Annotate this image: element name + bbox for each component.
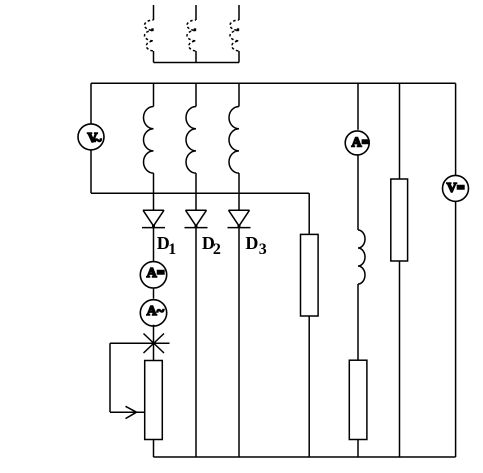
wire: rheostat to bottom bus — [153, 440, 155, 458]
wire: phase 3 drop from bus — [238, 83, 240, 106]
wire: diode D1 to ammeter — [153, 228, 155, 262]
wire: R3 to bottom bus — [357, 440, 359, 458]
transformer secondary winding L1 — [144, 107, 154, 174]
svg-text:A~: A~ — [147, 304, 165, 319]
wire: ammeter A~ down through tap cross to rheostat — [153, 325, 155, 361]
wire: R2 to bottom bus — [308, 316, 310, 457]
rheostat tap cross X — [144, 334, 165, 354]
resistor R4 body — [391, 179, 408, 261]
wire: right rail upper (to voltmeter V=) — [455, 83, 457, 175]
resistor R2 body — [301, 234, 319, 316]
svg-text:~: ~ — [94, 133, 102, 148]
wire: resistor branch drop from bus — [399, 83, 401, 179]
wire: inductor to resistor — [357, 284, 359, 360]
wire: phase 3 to bottom bus — [238, 228, 240, 457]
transformer secondary winding L3 — [229, 107, 239, 174]
svg-text:1: 1 — [168, 241, 176, 258]
wire: phase 3 to diode — [238, 173, 240, 210]
wire: top bus — [91, 82, 456, 84]
diode D1 — [142, 210, 165, 227]
transformer primary winding W2 (phase 2, top) — [187, 5, 196, 63]
wire: ammeter to inductor — [357, 155, 359, 230]
svg-text:D: D — [245, 233, 258, 253]
wire: tap horizontal y=343 — [110, 342, 170, 344]
wire: right rail lower — [455, 201, 457, 457]
wire: horizontal link y=193 — [91, 192, 309, 194]
voltmeter PV2 "V=" — [443, 175, 469, 201]
wire: left rail lower (V~ to bottom link) — [90, 150, 92, 193]
rheostat R1 body — [145, 361, 163, 440]
ammeter PA3 "A=" — [345, 131, 369, 155]
wire: left rail upper (to voltmeter V~) — [90, 83, 92, 124]
label D3 — [245, 233, 266, 258]
diode D2 — [185, 210, 208, 227]
svg-text:2: 2 — [213, 241, 221, 258]
wire: bottom bus — [154, 456, 456, 458]
resistor R3 body — [349, 360, 367, 439]
wire: primary neutral connector — [154, 62, 240, 64]
wire: R4 to bottom bus — [399, 261, 401, 457]
voltmeter PV1 "V~" — [78, 124, 104, 150]
wire: phase 1 to diode — [153, 173, 155, 210]
transformer secondary winding L2 — [186, 107, 196, 174]
ammeter PA2 "A~" — [140, 300, 166, 326]
svg-text:V=: V= — [447, 181, 465, 196]
ammeter PA1 "A=" — [140, 262, 166, 288]
label D2 — [202, 233, 221, 258]
wire: phase 2 to diode — [195, 173, 197, 210]
diode D3 — [228, 210, 251, 227]
svg-text:3: 3 — [259, 241, 267, 258]
wire: phase 1 drop from bus — [153, 83, 155, 106]
wire: bypass left vertical — [109, 343, 111, 412]
wire: bypass bottom horizontal to rheostat — [110, 411, 145, 413]
inductor L4 (smoothing choke) — [358, 230, 365, 284]
label D1 — [157, 233, 177, 258]
wire: phase 2 drop from bus — [195, 83, 197, 106]
wire: between ammeters — [153, 288, 155, 299]
wire: load branch drop at x=309 — [308, 193, 310, 234]
svg-text:A=: A= — [147, 266, 165, 281]
wire: ammeter branch drop from bus — [357, 83, 359, 130]
svg-text:A=: A= — [352, 136, 370, 151]
wire: phase 2 to bottom bus — [195, 228, 197, 457]
arrow into rheostat — [126, 406, 137, 418]
transformer primary winding W3 (phase 3, top) — [230, 5, 239, 63]
transformer primary winding W1 (phase 1, top) — [145, 5, 154, 63]
